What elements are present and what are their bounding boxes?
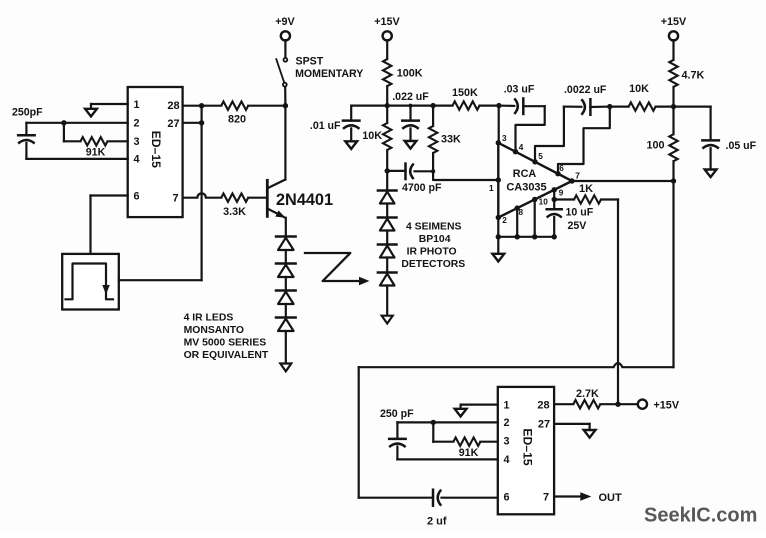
svg-text:4700 pF: 4700 pF bbox=[402, 182, 442, 194]
wire to terminal bbox=[386, 286, 388, 316]
svg-text:2: 2 bbox=[502, 216, 507, 225]
svg-text:.05 uF: .05 uF bbox=[726, 140, 757, 152]
pin 27 wire bbox=[183, 122, 202, 124]
svg-text:CA3035: CA3035 bbox=[506, 181, 546, 193]
photodiode D7 bbox=[378, 243, 397, 246]
wire to photodiodes bbox=[386, 171, 388, 191]
node right-junction bbox=[671, 104, 676, 109]
capacitor .03uF bbox=[514, 98, 518, 114]
svg-text:27: 27 bbox=[167, 118, 179, 130]
wire pin9 node bbox=[553, 190, 555, 200]
svg-text:100K: 100K bbox=[397, 67, 423, 79]
svg-text:8: 8 bbox=[519, 208, 524, 217]
resistor 1K bbox=[554, 198, 574, 200]
resistor 100K bbox=[386, 40, 388, 59]
IC U3 ED-15 decoder bbox=[498, 387, 554, 514]
svg-text:25V: 25V bbox=[568, 220, 587, 232]
photodiode D8 bbox=[378, 271, 397, 274]
capacitor .0022uF bbox=[564, 105, 582, 107]
wire 1K to decoder bbox=[617, 200, 619, 405]
wire pin2 to bus bbox=[497, 218, 499, 237]
wire .03uF to pin 4 bbox=[516, 106, 545, 152]
svg-text:2.7K: 2.7K bbox=[576, 388, 599, 400]
svg-text:4.7K: 4.7K bbox=[682, 69, 705, 81]
photodiode D5 bbox=[378, 189, 397, 192]
power terminal +15V right bbox=[669, 31, 678, 40]
svg-text:BP104: BP104 bbox=[419, 234, 451, 245]
power terminal +9V bbox=[281, 31, 290, 40]
svg-text:6: 6 bbox=[503, 491, 509, 503]
resistor 91K decoder bbox=[432, 422, 434, 441]
pin 9 bbox=[552, 187, 557, 192]
capacitor 4700pF bbox=[387, 170, 405, 172]
svg-text:MV 5000 SERIES: MV 5000 SERIES bbox=[184, 338, 267, 349]
pin 1 wire bbox=[496, 177, 501, 182]
svg-text:91K: 91K bbox=[459, 447, 479, 459]
ground bus bbox=[498, 236, 554, 238]
wire emitter bbox=[285, 218, 287, 237]
node pin2-junction bbox=[431, 420, 436, 425]
svg-text:+15V: +15V bbox=[661, 16, 687, 28]
svg-text:DETECTORS: DETECTORS bbox=[401, 259, 465, 270]
IR beam arrow bbox=[305, 253, 362, 281]
svg-text:28: 28 bbox=[537, 399, 549, 411]
wire cap to pin 4 bbox=[397, 458, 497, 460]
LED D4 bbox=[276, 316, 296, 319]
svg-text:150K: 150K bbox=[452, 87, 478, 99]
svg-text:6: 6 bbox=[133, 191, 139, 203]
wire pin8 to bus bbox=[516, 208, 518, 237]
svg-text:4: 4 bbox=[503, 454, 509, 466]
switch S1 SPST momentary bbox=[284, 58, 288, 62]
capacitor 250pF decoder bbox=[396, 422, 398, 439]
svg-text:SPST: SPST bbox=[296, 56, 324, 68]
svg-text:.03 uF: .03 uF bbox=[504, 84, 535, 96]
svg-text:4: 4 bbox=[133, 154, 139, 166]
svg-text:2: 2 bbox=[133, 118, 139, 130]
wire to pin 1 bbox=[433, 171, 498, 180]
svg-text:MOMENTARY: MOMENTARY bbox=[295, 68, 363, 80]
pin 7 bbox=[569, 178, 574, 183]
pin 10 bbox=[532, 197, 537, 202]
wire bbox=[386, 258, 388, 273]
svg-text:250 pF: 250 pF bbox=[380, 408, 414, 420]
svg-text:.0022 uF: .0022 uF bbox=[564, 84, 607, 96]
wire LED chain to terminal bbox=[285, 331, 287, 364]
wire bbox=[285, 304, 287, 318]
svg-text:1: 1 bbox=[489, 183, 494, 193]
ground bbox=[405, 141, 417, 149]
svg-text:3: 3 bbox=[502, 134, 507, 143]
terminal arrow down bbox=[382, 316, 393, 324]
node supply-junction bbox=[385, 103, 390, 108]
pin 1 wire to ground bbox=[461, 404, 498, 406]
svg-text:OR EQUIVALENT: OR EQUIVALENT bbox=[184, 350, 269, 361]
svg-text:5: 5 bbox=[538, 152, 543, 161]
svg-text:27: 27 bbox=[538, 419, 550, 431]
svg-text:9: 9 bbox=[559, 189, 564, 198]
wire right rail down bbox=[672, 181, 674, 367]
svg-text:10 uF: 10 uF bbox=[566, 206, 594, 218]
svg-text:820: 820 bbox=[228, 114, 246, 126]
power terminal +15V bbox=[383, 31, 392, 40]
LED D2 bbox=[276, 262, 296, 265]
resistor 4.7K bbox=[672, 40, 674, 60]
svg-text:2 uf: 2 uf bbox=[427, 515, 447, 527]
svg-text:4 IR LEDS: 4 IR LEDS bbox=[184, 313, 234, 324]
wire pin10 to bus bbox=[534, 200, 536, 237]
svg-text:28: 28 bbox=[167, 100, 179, 112]
node 33K-top bbox=[430, 103, 435, 108]
wire .0022uF to pin 5 bbox=[535, 107, 564, 162]
resistor 10K input bbox=[386, 106, 388, 123]
svg-text:.01 uF: .01 uF bbox=[310, 120, 341, 132]
node 33K-bottom bbox=[431, 169, 435, 173]
ground bbox=[85, 109, 97, 117]
terminal arrow down bbox=[280, 364, 291, 372]
svg-text:+15V: +15V bbox=[654, 400, 680, 412]
node collector-junction bbox=[283, 103, 288, 108]
wire pin 7 OUT bbox=[554, 495, 580, 497]
pin 5 bbox=[532, 159, 537, 164]
resistor 100 bbox=[672, 107, 674, 135]
svg-text:6: 6 bbox=[559, 164, 564, 173]
capacitor 250pF bbox=[25, 123, 27, 136]
svg-text:+9V: +9V bbox=[275, 16, 295, 28]
ground bbox=[497, 237, 499, 254]
op-amp U2 RCA CA3035 bbox=[498, 143, 572, 218]
node pin28 bbox=[199, 103, 204, 108]
wire collector bbox=[284, 106, 286, 180]
svg-text:7: 7 bbox=[575, 170, 580, 180]
svg-text:ED–15: ED–15 bbox=[149, 131, 163, 168]
svg-text:4 SEIMENS: 4 SEIMENS bbox=[406, 222, 462, 233]
LED D3 bbox=[276, 289, 296, 292]
node pin27 bbox=[199, 120, 204, 125]
svg-text:10K: 10K bbox=[362, 130, 382, 142]
pin 2 wire bbox=[26, 122, 127, 124]
wire .0022 junction to pin 6 bbox=[558, 107, 610, 174]
wire loop left bbox=[358, 367, 360, 498]
svg-text:10: 10 bbox=[539, 198, 549, 207]
wire to +15V terminal bbox=[618, 403, 638, 405]
pin 6 bbox=[555, 171, 560, 176]
ground bbox=[455, 409, 467, 417]
node .0022-out bbox=[607, 104, 612, 109]
resistor 2.7K bbox=[554, 403, 573, 405]
svg-text:10K: 10K bbox=[629, 83, 649, 95]
pin 2 wire bbox=[397, 421, 497, 423]
capacitor .022uF bbox=[387, 104, 410, 106]
svg-text:MONSANTO: MONSANTO bbox=[184, 325, 244, 336]
pulse waveform symbol bbox=[66, 264, 114, 300]
svg-text:91K: 91K bbox=[86, 146, 106, 158]
svg-text:1K: 1K bbox=[579, 183, 593, 195]
resistor 820 bbox=[183, 105, 222, 107]
node pin2-junction bbox=[61, 120, 66, 125]
svg-text:IR PHOTO: IR PHOTO bbox=[407, 246, 457, 257]
ground bbox=[705, 170, 717, 178]
node pin28-junction bbox=[615, 402, 620, 407]
wire pulse box to node bbox=[119, 279, 202, 281]
capacitor 2uF bbox=[432, 490, 435, 506]
pin 2 bbox=[496, 215, 501, 220]
wire cap to pin 4 bbox=[26, 158, 127, 160]
transistor Q1 2N4401 bbox=[267, 180, 285, 189]
svg-text:ED–15: ED–15 bbox=[520, 428, 534, 465]
wire +9V to switch bbox=[284, 40, 286, 57]
pin 6 wire bbox=[91, 194, 128, 196]
power terminal +15V decoder bbox=[638, 400, 647, 409]
pin 8 bbox=[515, 205, 520, 210]
svg-text:.022 uF: .022 uF bbox=[392, 91, 429, 103]
svg-text:33K: 33K bbox=[441, 133, 461, 145]
pulse generator box bbox=[62, 254, 119, 310]
svg-text:100: 100 bbox=[646, 140, 664, 152]
IC U1 ED-15 encoder bbox=[128, 87, 183, 217]
wire feedback top horizontal bbox=[623, 366, 674, 368]
svg-text:1: 1 bbox=[503, 399, 509, 411]
node pin3-junction bbox=[496, 103, 501, 108]
node detector-junction bbox=[385, 168, 390, 173]
wire pin7 output bbox=[572, 180, 674, 182]
pin 3 bbox=[496, 140, 501, 145]
svg-text:7: 7 bbox=[543, 491, 549, 503]
wire bbox=[386, 231, 388, 245]
svg-text:250pF: 250pF bbox=[12, 107, 43, 119]
capacitor 10uF 25V bbox=[553, 200, 555, 210]
ground bbox=[584, 430, 596, 438]
pin 1 wire to ground bbox=[91, 103, 128, 105]
pin 27 wire to ground bbox=[554, 423, 590, 425]
svg-text:7: 7 bbox=[172, 193, 178, 205]
resistor 33K bbox=[429, 126, 437, 153]
svg-text:SeekIC.com: SeekIC.com bbox=[644, 505, 757, 527]
ground bbox=[345, 141, 357, 149]
node output-junction bbox=[671, 178, 676, 183]
resistor 10K feedback bbox=[610, 105, 629, 107]
svg-text:3: 3 bbox=[503, 436, 509, 448]
resistor 150K bbox=[411, 104, 434, 106]
LED D1 bbox=[276, 235, 296, 238]
resistor 3.3K base bbox=[183, 197, 198, 199]
photodiode D6 bbox=[378, 216, 397, 219]
wire junction to pin 3 bbox=[498, 106, 500, 143]
svg-text:3.3K: 3.3K bbox=[223, 206, 246, 218]
svg-text:3: 3 bbox=[133, 136, 139, 148]
svg-text:+15V: +15V bbox=[374, 16, 400, 28]
svg-text:2N4401: 2N4401 bbox=[276, 191, 333, 209]
capacitor .01uF bbox=[351, 104, 387, 106]
wire bbox=[386, 204, 388, 218]
svg-text:RCA: RCA bbox=[513, 168, 537, 180]
wire bbox=[285, 277, 287, 291]
resistor 91K bbox=[63, 123, 65, 142]
wire bbox=[285, 250, 287, 264]
svg-text:2: 2 bbox=[503, 417, 509, 429]
svg-text:1: 1 bbox=[133, 99, 139, 111]
capacitor .05uF bbox=[674, 105, 711, 107]
svg-text:4: 4 bbox=[519, 143, 524, 152]
svg-text:OUT: OUT bbox=[599, 492, 623, 504]
pin 4 bbox=[513, 149, 518, 154]
